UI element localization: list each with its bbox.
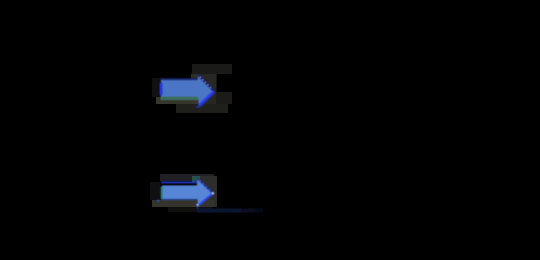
A2 tip dot — [212, 192, 214, 194]
A2 head top edge — [198, 179, 213, 194]
A1 underside band (teal-green) — [161, 96, 199, 100]
jpeg artifact blocks around arrow 1 — [152, 64, 232, 113]
A2 head lower edge — [198, 194, 213, 206]
A1 shaft — [161, 80, 199, 96]
A1 head top edge — [198, 75, 214, 91]
A1 head lower edge echo streak — [200, 93, 215, 108]
A1 head top edge bead highlights — [200, 77, 211, 89]
A1 head lower edge — [199, 91, 214, 105]
A1 left cap highlight — [160, 83, 163, 96]
A2 trailing streak — [197, 208, 263, 212]
A1 shaft top edge — [161, 78, 199, 80]
A2 shaft top navy line — [161, 182, 197, 184]
A1 head — [198, 74, 214, 105]
A2 bottom-left blue dot — [157, 200, 160, 203]
A2 shaft bottom thin edge — [162, 199, 198, 201]
A2 shaft — [162, 185, 198, 199]
arrow A2 (bottom) — [157, 178, 263, 212]
A2 head — [197, 178, 213, 206]
A2 head top edge flecks — [200, 181, 211, 192]
A2 left cap (teal) — [161, 186, 163, 199]
arrow A1 (top) — [160, 74, 215, 107]
A1 below-corner blue fleck — [196, 106, 200, 108]
jpeg artifact blocks around arrow 2 — [150, 174, 217, 212]
A2 bottom corner descender — [197, 206, 199, 211]
A2 bottom corner dot — [196, 204, 198, 206]
